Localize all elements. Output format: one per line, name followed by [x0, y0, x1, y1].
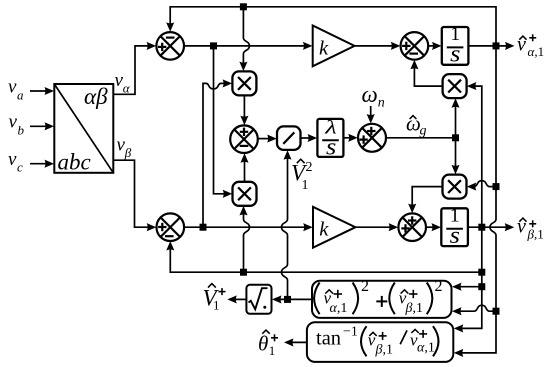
svg-text:a: a — [17, 88, 24, 103]
label theta_1 plus — [258, 330, 278, 358]
wire M3 output left and up into S5 minus input — [414, 63, 442, 86]
wire v_alpha from transform block to summing S1 — [113, 46, 153, 94]
svg-text:θ: θ — [258, 332, 268, 356]
wire 1/s upper output to v_alpha,1 label — [468, 45, 511, 47]
svg-text:tan: tan — [316, 328, 341, 350]
label v_alpha — [115, 70, 131, 96]
summing junction S1 top-left — [156, 32, 184, 60]
summing junction S6 bottom-right — [398, 213, 426, 241]
wire v_alpha,1 vertical line down to tan block with hop at eps line — [457, 46, 496, 353]
junction v_beta,1 to M2 — [240, 269, 247, 276]
wire S5 output to integrator 1/s upper — [428, 45, 438, 47]
wire eps_alpha branch down to multiplier M2 — [214, 46, 230, 194]
wire input v_b — [30, 125, 51, 127]
wire V1 squared vertical up to divider block with two hops — [282, 153, 288, 299]
svg-text:s: s — [450, 42, 460, 68]
square root block — [246, 285, 271, 314]
wire error eps_beta from S2 to gain k2 — [184, 226, 309, 228]
label V1 plus magnitude — [203, 284, 226, 313]
svg-text:αβ: αβ — [84, 84, 108, 109]
svg-text:ω: ω — [362, 82, 378, 107]
wire v_alpha,1 branch to multiplier M4 right input with hop — [470, 181, 496, 187]
wire eps_beta branch up to multiplier M1 with hop — [203, 83, 229, 227]
wire v_beta,1 vertical down to tan block input — [457, 227, 482, 328]
svg-text:s: s — [326, 135, 336, 161]
wire input v_c — [30, 163, 51, 165]
summing junction S5 top-right — [401, 32, 429, 60]
gain block k1 upper — [313, 26, 355, 67]
wire input v_a — [30, 90, 51, 92]
multiplier M2 lower-middle — [233, 182, 257, 206]
junction V1 squared — [284, 296, 291, 303]
svg-text:β,1: β,1 — [405, 301, 423, 316]
svg-text:α,1: α,1 — [330, 301, 348, 316]
svg-text:abc: abc — [58, 150, 91, 175]
summing junction S4 omega_n adder — [358, 124, 386, 152]
FLL summing junction S3 middle — [230, 125, 258, 153]
wire v_beta,1 feedback line to S2 minus input — [170, 244, 482, 272]
svg-text:β,1: β,1 — [375, 342, 393, 357]
label v_c — [8, 149, 23, 175]
wire omega_g branch up to multiplier M3 — [455, 102, 457, 138]
wire magnitude block output to sqrt block — [275, 298, 312, 300]
wire error eps_alpha from S1 to gain k1 — [184, 45, 309, 47]
wire sqrt output to V1 label — [231, 298, 247, 300]
svg-text:1: 1 — [302, 178, 309, 193]
multiplier M3 upper-right — [443, 74, 467, 98]
junction eps_alpha — [210, 42, 217, 49]
svg-text:β: β — [124, 145, 132, 160]
arctangent block — [307, 322, 453, 362]
wire lambda/s output to summing S4 — [343, 137, 354, 139]
svg-text:2: 2 — [361, 278, 369, 295]
svg-text:v: v — [9, 112, 18, 133]
svg-text:v: v — [8, 149, 17, 170]
svg-text:b: b — [18, 123, 25, 138]
wire tan block output to theta label — [287, 341, 307, 343]
svg-text:−1: −1 — [343, 325, 358, 340]
wire v_beta,1 branch into magnitude block input 1 — [455, 286, 482, 288]
svg-text:α: α — [123, 81, 131, 96]
multiplier M4 lower-right — [443, 175, 467, 199]
gain block k2 lower — [313, 207, 355, 248]
svg-text:α,1: α,1 — [528, 44, 545, 59]
svg-text:s: s — [450, 223, 460, 249]
summing junction S2 bottom-left — [157, 213, 185, 241]
integrator block 1/s upper — [442, 23, 469, 67]
junction eps_beta — [200, 224, 207, 231]
wire S6 output to integrator 1/s lower — [426, 226, 438, 228]
wire omega_n input down into S4 — [370, 106, 372, 120]
label omega_g hat — [406, 112, 427, 139]
wire omega_g branch down to multiplier M4 — [455, 138, 457, 171]
svg-text:k: k — [319, 37, 329, 59]
wire M4 output left and down into S6 plus input — [412, 187, 442, 210]
wire divider output to lambda/s block — [301, 137, 314, 139]
svg-text:β,1: β,1 — [527, 226, 544, 241]
junction v_beta,1 output — [478, 224, 485, 231]
junction v_alpha,1 to M4 — [493, 183, 500, 190]
wire v_beta from transform block to summing S2 — [113, 160, 153, 227]
wire M1 output down to FLL summing S3 plus input — [243, 95, 245, 122]
label v_b — [9, 112, 25, 138]
wire k1 output to summing S5 — [355, 45, 398, 47]
svg-text:2: 2 — [435, 278, 443, 295]
junction v_beta,1 feedback corner — [478, 269, 485, 276]
wire S3 output to divider block — [258, 138, 274, 140]
junction top line v_alpha,1 — [240, 3, 247, 10]
svg-text:1: 1 — [269, 343, 276, 358]
junction v_alpha,1 to magnitude — [493, 308, 500, 315]
junction omega_g — [452, 134, 459, 141]
svg-text:2: 2 — [306, 160, 313, 175]
label v_beta,1 output bottom right — [517, 216, 544, 242]
svg-text:1: 1 — [213, 298, 220, 313]
svg-text:n: n — [378, 96, 385, 111]
label V1 squared — [291, 159, 313, 193]
label v_beta — [117, 135, 132, 161]
abc to alpha-beta transformation block — [54, 84, 113, 175]
label v_a — [8, 77, 24, 103]
wire v_beta,1 branch up to multiplier M2 with hop — [244, 209, 250, 272]
svg-text:v: v — [8, 77, 17, 98]
wire M2 output up to FLL summing S3 minus input — [244, 157, 246, 182]
divider block — [277, 126, 301, 149]
multiplier M1 upper-middle — [232, 71, 256, 95]
wire omega_g from S4 to junction — [386, 137, 456, 139]
magnitude squared block — [312, 278, 452, 318]
integrator block 1/s lower — [441, 205, 468, 250]
label omega_n — [362, 82, 385, 111]
wire k2 output to summing S6 — [355, 226, 395, 228]
label v_alpha,1 output top right — [517, 34, 544, 60]
wire 1/s lower output to v_beta,1 label — [468, 226, 511, 228]
svg-text:k: k — [319, 219, 329, 241]
wire top feedback line v_alpha,1 to S1 minus input — [170, 7, 496, 46]
junction v_beta,1 to magnitude — [478, 283, 485, 290]
wire v_beta,1 vertical up to multiplier M3 right input — [470, 86, 482, 227]
wire v_alpha,1 branch into magnitude block input 2 with hop — [455, 305, 496, 311]
junction v_alpha,1 output — [493, 42, 500, 49]
lambda over s block — [317, 117, 343, 160]
wire v_alpha,1 branch down to multiplier M1 with hop — [243, 7, 249, 68]
svg-text:c: c — [17, 160, 23, 175]
svg-text:α,1: α,1 — [417, 341, 435, 356]
svg-text:g: g — [420, 124, 427, 139]
